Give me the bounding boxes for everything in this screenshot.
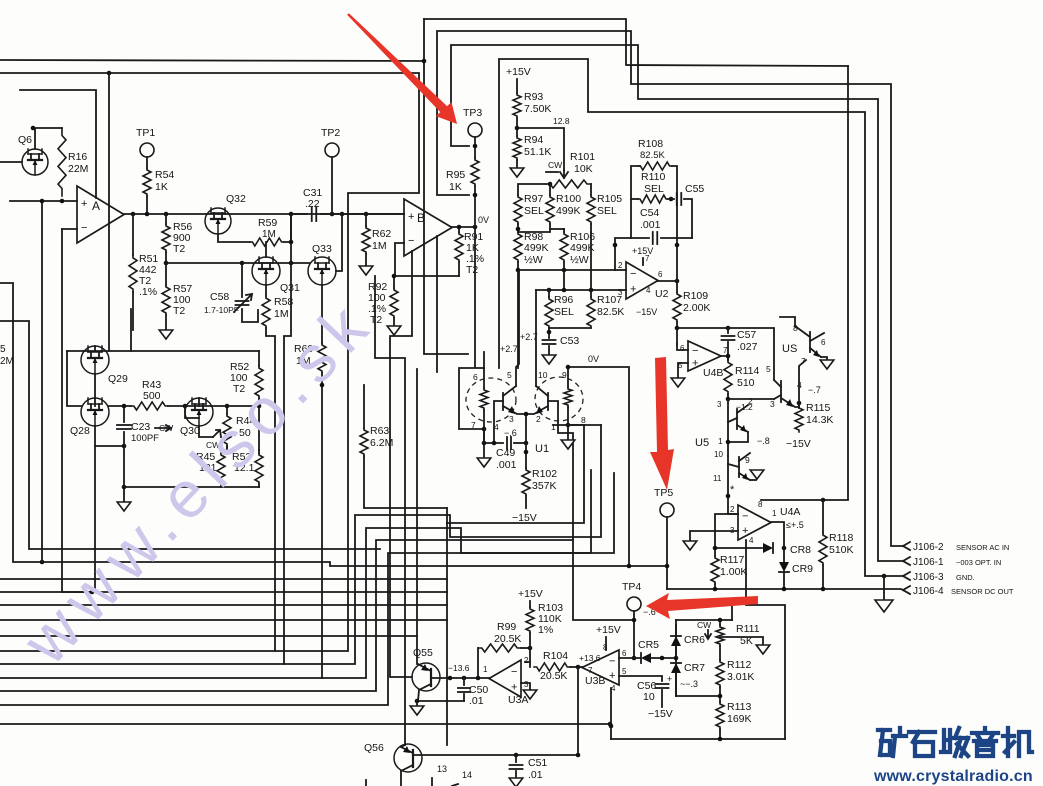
svg-text:.027: .027	[737, 341, 758, 353]
wire bottom line y592	[0, 591, 447, 593]
junction R95 bottom	[473, 193, 478, 198]
svg-text:U5: U5	[695, 437, 709, 449]
svg-text:1.00K: 1.00K	[720, 566, 747, 578]
junction box top R111	[718, 618, 723, 623]
wire R109 node to U4B and C57	[677, 327, 728, 329]
svg-text:+: +	[667, 674, 672, 684]
svg-text:R115: R115	[806, 402, 830, 414]
junction C58 top	[240, 261, 245, 266]
resistor R107	[590, 290, 592, 297]
svg-text:R117: R117	[720, 554, 744, 566]
svg-text:5: 5	[622, 667, 627, 676]
wire TP1 to R54	[146, 157, 148, 168]
capacitor C55	[668, 198, 674, 200]
svg-text:C23: C23	[131, 421, 150, 433]
wire CR8 row	[715, 547, 762, 549]
svg-text:T2: T2	[173, 305, 185, 317]
ground below R57	[159, 330, 173, 339]
wire cascade C1	[447, 425, 584, 523]
junction output 0V node	[473, 225, 478, 230]
junction C49 right	[524, 441, 529, 446]
svg-text:TP1: TP1	[136, 127, 155, 139]
wire box bottom rail	[611, 738, 785, 740]
svg-text:TP3: TP3	[463, 107, 482, 119]
junction rail R56	[164, 212, 169, 217]
resistor R97	[514, 195, 522, 224]
wire R54 to output rail	[146, 196, 148, 214]
resistor R115	[798, 406, 800, 408]
svg-text:3: 3	[618, 288, 623, 297]
wire net y562 line running to TP5	[0, 283, 667, 566]
junction U3B pin4 bottom	[609, 724, 614, 729]
svg-text:13: 13	[437, 764, 447, 774]
junction OV rail	[566, 365, 571, 370]
resistor R60	[318, 343, 326, 373]
resistor R105	[587, 195, 595, 224]
svg-text:499K: 499K	[556, 205, 581, 217]
svg-text:+: +	[742, 525, 748, 537]
wire U4B pin5 to ground	[678, 363, 688, 378]
svg-text:6: 6	[473, 372, 478, 382]
wire U5a column	[727, 399, 729, 442]
wire U3B pin5 rail	[619, 676, 662, 681]
wire pin14 stub	[452, 784, 458, 786]
junction U4B out	[726, 354, 731, 359]
svg-text:J106-1: J106-1	[913, 557, 944, 568]
junction C23 top	[122, 404, 127, 409]
resistor R91	[458, 227, 460, 232]
svg-text:R105: R105	[597, 193, 622, 205]
svg-text:−: −	[511, 666, 517, 678]
wire bottom-left Z route 3	[0, 433, 573, 691]
svg-text:14.3K: 14.3K	[806, 414, 833, 426]
junction OV x629	[627, 564, 632, 569]
wire R108 to right riser	[672, 166, 677, 238]
wire R59 right to main rail riser	[284, 214, 291, 242]
transistor Q30	[185, 398, 213, 426]
diode CR5 (left pointing)	[641, 653, 651, 663]
svg-text:11: 11	[713, 474, 722, 483]
svg-text:+15V: +15V	[596, 624, 621, 636]
wire +15V to R103	[529, 601, 531, 607]
wire U2 output	[658, 280, 677, 282]
svg-text:CR6: CR6	[684, 634, 705, 646]
svg-text:½W: ½W	[524, 254, 543, 266]
wire V109 down to Q29 drain rail	[108, 73, 110, 351]
svg-text:10K: 10K	[574, 163, 593, 175]
resistor R56	[165, 214, 167, 224]
junction J106-3 gnd tap	[882, 574, 887, 579]
wire minus-input net V62 to bottom	[62, 229, 92, 592]
transistor Q mid (to4)	[780, 381, 782, 402]
svg-text:Q33: Q33	[312, 243, 332, 255]
svg-text:SENSOR DC OUT: SENSOR DC OUT	[951, 587, 1014, 596]
connector J106-2	[903, 542, 910, 550]
dashed ellipse U1 left	[466, 378, 516, 422]
junction R43 right	[183, 404, 188, 409]
svg-text:−15V: −15V	[648, 708, 673, 720]
wire V42 from +A input down	[41, 201, 43, 562]
wire C55 bottom to C54 rail	[677, 237, 692, 239]
wire emitter node down	[525, 414, 527, 443]
svg-text:+: +	[81, 198, 87, 210]
wire R62 to ground	[365, 254, 367, 266]
wire bottom partial box	[365, 780, 367, 786]
junction C57 top	[726, 326, 731, 331]
svg-text:7.50K: 7.50K	[524, 103, 551, 115]
svg-text:0V: 0V	[478, 215, 489, 225]
svg-text:U4A: U4A	[780, 506, 800, 518]
junction star	[726, 494, 731, 499]
ground U4A pin3	[683, 541, 697, 550]
svg-text:1%: 1%	[538, 624, 553, 636]
svg-text:+15V: +15V	[632, 246, 653, 256]
wire US emitter to gnd	[821, 357, 827, 360]
wire R111 wiper	[720, 637, 763, 645]
svg-text:A: A	[92, 199, 100, 213]
resistor R96	[548, 290, 550, 297]
junction node1	[726, 440, 731, 445]
junction R118 top	[821, 498, 826, 503]
svg-text:US: US	[782, 343, 797, 355]
wire U5b emitter gnd	[750, 479, 756, 481]
ground pin1 U1	[561, 440, 575, 449]
svg-text:−: −	[609, 656, 615, 668]
red arrow to TP3	[347, 13, 457, 124]
junction R60 bottom	[320, 383, 325, 388]
op-amp U2	[626, 262, 658, 299]
junction top-left	[107, 71, 112, 76]
wire inverting rail y270	[518, 269, 615, 271]
svg-text:C49: C49	[496, 447, 515, 459]
svg-text:14: 14	[462, 770, 472, 780]
svg-text:CR9: CR9	[792, 563, 813, 575]
transistor Q32	[205, 208, 231, 234]
pot R101 wiper arrow	[560, 170, 568, 178]
svg-text:9: 9	[562, 370, 567, 380]
wire R95 bottom to 0V node	[474, 186, 476, 227]
resistor R51	[132, 214, 134, 255]
wire U3B pin6 rail to CR5	[619, 657, 640, 659]
ground below R62	[359, 266, 373, 275]
svg-text:R54: R54	[155, 169, 174, 181]
wire bus P3: TP3 node to J106-1	[451, 45, 903, 561]
capacitor C23	[123, 406, 125, 422]
transistor Q55	[412, 663, 440, 691]
svg-text:CR5: CR5	[638, 639, 659, 651]
resistor R112	[719, 646, 721, 660]
resistor R99 horizontal	[477, 648, 479, 678]
svg-text:C53: C53	[560, 335, 579, 347]
svg-text:169K: 169K	[727, 713, 752, 725]
wire base rail to right transistor	[728, 398, 774, 400]
svg-text:R114: R114	[735, 365, 759, 377]
svg-text:6: 6	[658, 270, 663, 279]
connector J106-1	[903, 557, 910, 565]
junction R114 bottom	[726, 397, 731, 402]
svg-text:R112: R112	[727, 659, 751, 671]
resistor R118	[822, 500, 824, 533]
svg-text:1: 1	[718, 436, 723, 446]
wire U2 pin2 from rail	[615, 269, 626, 271]
svg-text:−15V: −15V	[636, 307, 657, 317]
op-amp U4B	[688, 341, 721, 371]
svg-text:SEL: SEL	[597, 205, 617, 217]
svg-text:CR8: CR8	[790, 544, 811, 556]
resistor U1 pin9 internal	[567, 367, 569, 387]
svg-text:+13.6: +13.6	[579, 653, 601, 663]
wire pin6 stub up	[483, 352, 485, 368]
svg-text:4: 4	[749, 536, 754, 545]
svg-text:357K: 357K	[532, 480, 557, 492]
svg-text:499K: 499K	[524, 242, 549, 254]
resistor R103	[526, 607, 534, 633]
dashed ellipse U1 right	[535, 377, 583, 421]
svg-text:.001: .001	[640, 219, 661, 231]
wire Q30 drain to rail	[198, 398, 200, 406]
resistor R58	[265, 285, 267, 296]
svg-text:U4B: U4B	[703, 367, 723, 379]
svg-text:SEL: SEL	[524, 205, 544, 217]
svg-text:SENSOR AC IN: SENSOR AC IN	[956, 543, 1009, 552]
junction C54 left	[613, 243, 618, 248]
wire R112 bottom rail	[719, 687, 721, 702]
resistor R57	[162, 285, 170, 315]
resistor R114	[724, 360, 732, 394]
wire Q56 emitter from vertical	[401, 745, 405, 747]
junction rail x133	[131, 212, 136, 217]
svg-text:−.7: −.7	[808, 385, 821, 395]
capacitor C31	[291, 213, 307, 215]
svg-text:T2: T2	[466, 264, 478, 276]
svg-text:R109: R109	[683, 290, 708, 302]
capacitor C49	[483, 429, 485, 443]
svg-text:.01: .01	[469, 695, 484, 707]
svg-text:−15V: −15V	[786, 438, 811, 450]
svg-text:82.5K: 82.5K	[597, 306, 624, 318]
svg-text:1.7-10PF: 1.7-10PF	[204, 305, 239, 315]
transistor Q33	[308, 257, 336, 285]
wire bottom line y605	[0, 604, 447, 606]
svg-text:CW: CW	[548, 160, 562, 170]
wire US collector stub	[780, 317, 795, 326]
transistor U1 left	[502, 393, 504, 410]
wire R58 bottom jog to deep vertical	[266, 328, 275, 651]
wire box top rail	[676, 619, 732, 621]
wire Q30 source to R44 wiper	[199, 426, 213, 437]
wire emitter node to R102	[525, 443, 527, 468]
svg-text:5: 5	[0, 344, 6, 355]
svg-text:7: 7	[645, 254, 650, 263]
wire bus P4: +15V block wrap to J106-3	[499, 59, 903, 576]
junction TP5 at y566	[665, 564, 670, 569]
resistor R52	[258, 351, 260, 366]
svg-text:J106-4: J106-4	[913, 586, 944, 597]
svg-text:6.2M: 6.2M	[370, 437, 393, 449]
svg-text:+: +	[630, 284, 636, 296]
test point TP5	[660, 503, 674, 517]
wire U4B out to R114	[721, 356, 728, 360]
svg-text:R62: R62	[372, 228, 391, 240]
svg-text:2: 2	[748, 396, 753, 406]
junction R103 node	[528, 646, 533, 651]
svg-text:www.crystalradio.cn: www.crystalradio.cn	[873, 768, 1033, 785]
wire R44 bottom to R45/R53 rail	[221, 446, 227, 450]
wire TP2 to rail	[331, 157, 333, 214]
svg-text:1M: 1M	[274, 308, 289, 320]
transistor Q56	[394, 744, 422, 772]
wire pair collector risers	[516, 270, 519, 386]
junction P1	[422, 59, 427, 64]
diode CR9	[783, 548, 785, 562]
ground below C51	[509, 778, 523, 786]
wire Q6 gate from left	[0, 161, 22, 163]
junction Q6 gate rail	[31, 126, 36, 131]
wire R60 bottom down	[321, 385, 323, 678]
resistor U1 pin6 internal	[483, 369, 485, 388]
svg-text:R101: R101	[570, 151, 595, 163]
svg-text:1: 1	[772, 509, 777, 518]
wire R108/R110 block left riser	[631, 166, 640, 238]
resistor R53	[258, 450, 260, 453]
junction rail x342	[340, 212, 345, 217]
wire pin1/8 node to ground	[553, 424, 568, 426]
wire R101 ends down to SEL row	[518, 184, 546, 195]
junction R44 top	[225, 404, 230, 409]
svg-text:2.00K: 2.00K	[683, 302, 710, 314]
transistor Q31	[252, 257, 280, 285]
svg-text:−: −	[692, 345, 698, 357]
svg-text:T2: T2	[173, 243, 185, 255]
resistor R94	[513, 136, 521, 160]
wire U1 right base	[548, 401, 568, 433]
svg-text:2M: 2M	[0, 356, 14, 367]
wire Q33 drain riser	[336, 214, 342, 271]
wire pin8 rail to riser 601	[568, 424, 601, 426]
junction Q31 gate	[289, 261, 294, 266]
junction C53 top	[547, 330, 552, 335]
transistor Q6	[22, 149, 48, 175]
diode CR8	[763, 543, 773, 553]
wire amp B minus node	[395, 243, 459, 276]
svg-text:U1: U1	[535, 443, 549, 455]
junction Q55 rail b	[462, 676, 467, 681]
transistor Q28	[81, 398, 109, 426]
ground U3A pin3	[523, 690, 537, 699]
logo crystalradio chinese characters	[878, 728, 1032, 756]
wire TP5 vertical to J106-4 line	[666, 517, 668, 589]
svg-text:3: 3	[770, 399, 775, 409]
ground below C49 left	[483, 443, 485, 458]
svg-text:12.8: 12.8	[553, 116, 570, 126]
svg-text:+2.7: +2.7	[500, 344, 518, 354]
junction rail x332	[330, 212, 335, 217]
resistor R117	[714, 548, 716, 556]
wire left box edge V96	[20, 90, 96, 198]
junction TP4 pin6 rail	[632, 656, 637, 661]
svg-text:C55: C55	[685, 183, 704, 195]
svg-text:1: 1	[483, 665, 488, 674]
junction C49 base drop	[492, 441, 497, 446]
junction C49 left	[482, 441, 487, 446]
wire R106 bottom	[563, 262, 565, 290]
svg-text:2: 2	[618, 261, 623, 270]
connector J106-4	[903, 586, 910, 594]
wire pin2 feedback via CR8	[715, 514, 738, 548]
svg-text:5: 5	[507, 370, 512, 380]
wire Q55 collector/gnd node	[417, 700, 464, 702]
resistor R62	[365, 214, 367, 226]
wire C57 top riser to transistor 5	[728, 328, 774, 380]
svg-text:5: 5	[766, 364, 771, 374]
junction R118 bottom	[821, 587, 826, 592]
junction R16 bottom on +A rail	[60, 199, 65, 204]
svg-text:20.5K: 20.5K	[540, 670, 567, 682]
wire Q28 source down	[95, 426, 124, 446]
junction y290 R107	[589, 288, 594, 293]
junction R99 left	[476, 676, 481, 681]
junction R112/R113	[718, 694, 723, 699]
wire amp A output rail	[124, 213, 404, 215]
svg-text:51.1K: 51.1K	[524, 146, 551, 158]
junction Q55 rail a	[448, 676, 453, 681]
wire R93-R94	[516, 118, 518, 136]
junction TP4 y620	[632, 618, 637, 623]
junction C51 top	[514, 753, 519, 758]
test point TP2	[325, 143, 339, 157]
svg-text:+: +	[511, 682, 517, 694]
resistor R104 horizontal	[534, 663, 570, 671]
wire top-left net 2 box: to T2 plunge and bottom-left return y651	[0, 73, 419, 651]
resistor R98	[514, 232, 522, 262]
svg-text:~−.3: ~−.3	[680, 679, 698, 689]
resistor R101 horizontal	[546, 180, 591, 188]
resistor R45	[220, 450, 222, 453]
resistor R113	[716, 702, 724, 729]
wire CR5 right to CR6 box	[651, 657, 676, 659]
svg-text:+15V: +15V	[518, 588, 543, 600]
op-amp U3A (points left)	[489, 660, 521, 697]
pot R111 vertical	[716, 625, 724, 646]
ground R111 wiper	[756, 645, 770, 654]
wire R63 net to plunge vertical	[364, 456, 447, 508]
svg-text:U3A: U3A	[508, 694, 528, 706]
junction CR8 right	[782, 546, 787, 551]
wire R104 node down	[577, 667, 579, 755]
svg-text:0V: 0V	[588, 354, 599, 364]
svg-text:R94: R94	[524, 134, 543, 146]
resistor R95	[471, 158, 479, 186]
junction CR9 bottom	[782, 587, 787, 592]
junction R102 top	[524, 450, 529, 455]
wire U4A output to R118 rail	[761, 499, 848, 501]
wire bottom line y636	[0, 635, 417, 637]
svg-text:R97: R97	[524, 193, 543, 205]
wire U4A out down to CR8	[771, 522, 784, 548]
wire bottom-left Z route 4	[0, 470, 591, 705]
svg-text:CR7: CR7	[684, 662, 705, 674]
svg-text:.22: .22	[305, 198, 320, 210]
capacitor C57	[727, 328, 729, 333]
junction rail TP1	[145, 212, 150, 217]
junction Q28/C23	[122, 444, 127, 449]
wire bottom-left Z route 1	[0, 425, 601, 664]
svg-text:Q6: Q6	[18, 134, 32, 146]
junction Q55 gnd node	[415, 699, 420, 704]
wire Q32 source to R59	[218, 234, 250, 242]
pot R44	[226, 406, 228, 414]
svg-text:TP2: TP2	[321, 127, 340, 139]
